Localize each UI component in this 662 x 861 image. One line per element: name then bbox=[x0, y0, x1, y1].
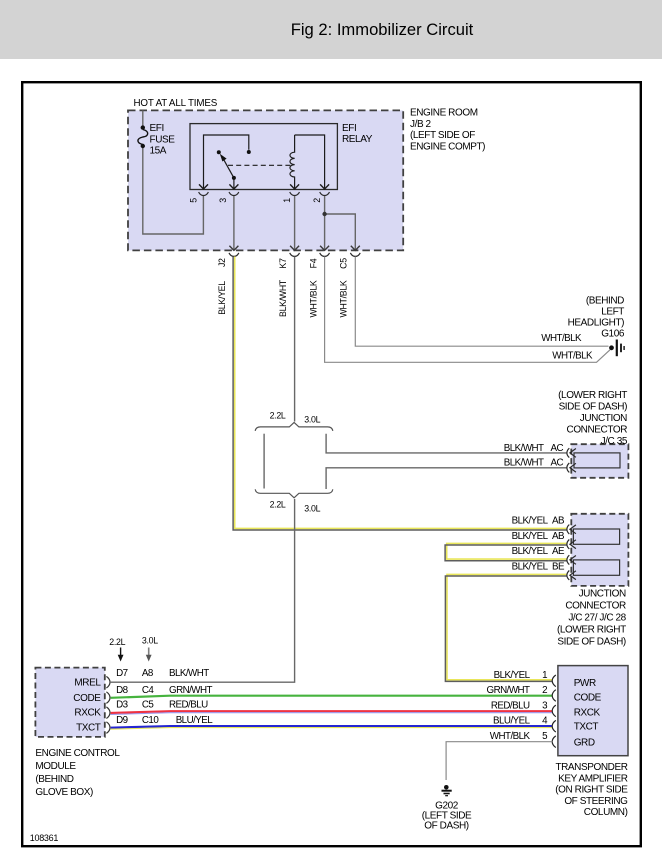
svg-text:1: 1 bbox=[542, 670, 547, 681]
svg-text:J2: J2 bbox=[217, 258, 227, 267]
svg-text:MREL: MREL bbox=[74, 678, 101, 689]
svg-text:2: 2 bbox=[542, 685, 547, 696]
svg-text:C10: C10 bbox=[142, 715, 159, 726]
svg-text:HOT AT ALL TIMES: HOT AT ALL TIMES bbox=[134, 98, 218, 109]
svg-text:LEFT: LEFT bbox=[601, 307, 624, 318]
svg-text:2.2L: 2.2L bbox=[270, 411, 286, 421]
svg-text:AB: AB bbox=[552, 516, 565, 527]
svg-text:D7: D7 bbox=[116, 668, 128, 679]
svg-text:WHT/BLK: WHT/BLK bbox=[309, 280, 319, 317]
svg-text:AC: AC bbox=[550, 443, 563, 454]
svg-text:MODULE: MODULE bbox=[35, 761, 76, 772]
svg-text:GRN/WHT: GRN/WHT bbox=[169, 685, 213, 696]
svg-text:D8: D8 bbox=[116, 685, 129, 696]
svg-text:JUNCTION: JUNCTION bbox=[579, 589, 626, 600]
svg-text:3.0L: 3.0L bbox=[304, 414, 320, 424]
svg-text:3: 3 bbox=[218, 198, 228, 203]
svg-text:FUSE: FUSE bbox=[150, 134, 176, 145]
svg-text:WHT/BLK: WHT/BLK bbox=[490, 731, 531, 742]
svg-text:JUNCTION: JUNCTION bbox=[580, 413, 627, 424]
svg-text:G106: G106 bbox=[601, 329, 625, 340]
svg-text:(LEFT SIDE OF: (LEFT SIDE OF bbox=[410, 130, 475, 141]
svg-text:SIDE OF DASH): SIDE OF DASH) bbox=[557, 637, 626, 648]
svg-text:BLK/WHT: BLK/WHT bbox=[169, 668, 209, 679]
svg-text:RED/BLU: RED/BLU bbox=[491, 700, 530, 711]
svg-text:CONNECTOR: CONNECTOR bbox=[567, 425, 628, 436]
svg-text:WHT/BLK: WHT/BLK bbox=[552, 351, 593, 362]
svg-text:AE: AE bbox=[552, 546, 565, 557]
svg-text:ENGINE COMPT): ENGINE COMPT) bbox=[410, 141, 485, 152]
svg-text:15A: 15A bbox=[150, 146, 167, 157]
svg-text:BLK/YEL: BLK/YEL bbox=[494, 670, 531, 681]
svg-text:WHT/BLK: WHT/BLK bbox=[541, 333, 582, 344]
svg-text:RXCK: RXCK bbox=[74, 708, 101, 719]
svg-text:BLK/YEL: BLK/YEL bbox=[512, 546, 549, 557]
svg-text:EFI: EFI bbox=[342, 123, 356, 134]
svg-text:(LOWER RIGHT: (LOWER RIGHT bbox=[558, 390, 627, 401]
svg-text:ENGINE ROOM: ENGINE ROOM bbox=[410, 108, 478, 119]
svg-text:OF STEERING: OF STEERING bbox=[564, 796, 628, 807]
svg-text:108361: 108361 bbox=[30, 833, 59, 843]
svg-text:COLUMN): COLUMN) bbox=[584, 807, 628, 818]
svg-text:C4: C4 bbox=[142, 685, 155, 696]
svg-text:ENGINE CONTROL: ENGINE CONTROL bbox=[35, 748, 120, 759]
svg-text:F4: F4 bbox=[309, 258, 319, 268]
svg-text:EFI: EFI bbox=[150, 123, 164, 134]
svg-text:GRD: GRD bbox=[574, 737, 595, 748]
svg-text:K7: K7 bbox=[278, 258, 288, 269]
svg-text:BLK/YEL: BLK/YEL bbox=[217, 281, 227, 315]
svg-text:C5: C5 bbox=[142, 700, 155, 711]
svg-text:WHT/BLK: WHT/BLK bbox=[339, 280, 349, 317]
svg-text:2.2L: 2.2L bbox=[270, 500, 286, 510]
svg-text:BLK/YEL: BLK/YEL bbox=[512, 516, 549, 527]
svg-text:J/C 27/ J/C 28: J/C 27/ J/C 28 bbox=[568, 613, 626, 624]
svg-text:BLK/WHT: BLK/WHT bbox=[278, 279, 288, 317]
svg-text:(BEHIND: (BEHIND bbox=[586, 296, 624, 307]
svg-text:CONNECTOR: CONNECTOR bbox=[565, 601, 626, 612]
svg-text:RXCK: RXCK bbox=[574, 708, 601, 719]
svg-text:2: 2 bbox=[312, 198, 322, 203]
svg-text:1: 1 bbox=[282, 198, 292, 203]
svg-text:BLK/WHT: BLK/WHT bbox=[504, 458, 544, 469]
svg-text:BLK/YEL: BLK/YEL bbox=[512, 562, 549, 573]
svg-text:C5: C5 bbox=[339, 258, 349, 269]
svg-text:BLK/WHT: BLK/WHT bbox=[504, 443, 544, 454]
svg-text:HEADLIGHT): HEADLIGHT) bbox=[568, 318, 624, 329]
svg-text:RELAY: RELAY bbox=[342, 134, 373, 145]
svg-text:OF DASH): OF DASH) bbox=[424, 820, 469, 831]
svg-text:PWR: PWR bbox=[574, 678, 596, 689]
svg-text:TRANSPONDER: TRANSPONDER bbox=[555, 762, 627, 773]
svg-text:BE: BE bbox=[552, 562, 565, 573]
svg-text:BLK/YEL: BLK/YEL bbox=[512, 531, 549, 542]
svg-text:AC: AC bbox=[550, 458, 563, 469]
svg-text:A8: A8 bbox=[142, 668, 154, 679]
svg-text:(BEHIND: (BEHIND bbox=[35, 774, 73, 785]
svg-text:AB: AB bbox=[552, 531, 565, 542]
svg-text:D3: D3 bbox=[116, 700, 129, 711]
svg-text:2.2L: 2.2L bbox=[109, 637, 125, 647]
svg-text:TXCT: TXCT bbox=[574, 722, 599, 733]
svg-text:CODE: CODE bbox=[73, 693, 101, 704]
svg-text:(LOWER RIGHT: (LOWER RIGHT bbox=[557, 625, 626, 636]
svg-text:D9: D9 bbox=[116, 715, 128, 726]
svg-text:J/B 2: J/B 2 bbox=[410, 119, 432, 130]
svg-text:SIDE OF DASH): SIDE OF DASH) bbox=[559, 402, 628, 413]
svg-text:3.0L: 3.0L bbox=[142, 636, 158, 646]
svg-text:3.0L: 3.0L bbox=[304, 504, 320, 514]
svg-text:J/C 35: J/C 35 bbox=[601, 436, 628, 447]
svg-text:GLOVE BOX): GLOVE BOX) bbox=[35, 787, 93, 798]
svg-text:Fig 2: Immobilizer Circuit: Fig 2: Immobilizer Circuit bbox=[291, 20, 474, 39]
svg-text:BLU/YEL: BLU/YEL bbox=[176, 715, 214, 726]
svg-text:KEY AMPLIFIER: KEY AMPLIFIER bbox=[558, 773, 628, 784]
svg-text:GRN/WHT: GRN/WHT bbox=[487, 685, 531, 696]
svg-text:CODE: CODE bbox=[574, 693, 602, 704]
svg-text:BLU/YEL: BLU/YEL bbox=[493, 716, 531, 727]
svg-text:5: 5 bbox=[189, 198, 199, 203]
svg-text:(ON RIGHT SIDE: (ON RIGHT SIDE bbox=[555, 785, 628, 796]
svg-text:TXCT: TXCT bbox=[76, 723, 101, 734]
svg-text:RED/BLU: RED/BLU bbox=[169, 700, 208, 711]
